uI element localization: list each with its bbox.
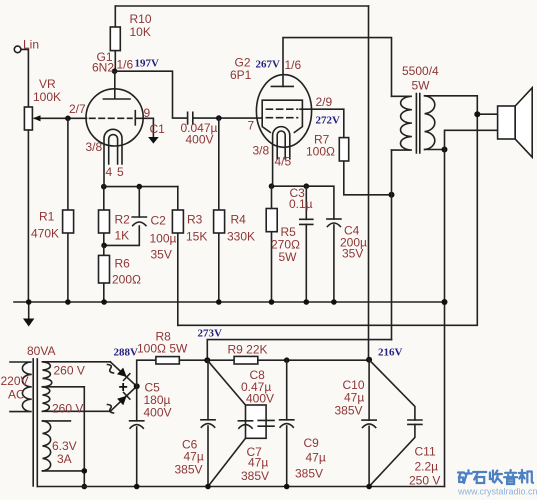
wire pin9 to ground: [135, 118, 153, 137]
svg-text:15K: 15K: [186, 230, 207, 244]
svg-text:R4: R4: [231, 213, 247, 227]
svg-text:R2: R2: [115, 213, 131, 227]
node C6 ground: [205, 484, 211, 490]
svg-text:2/9: 2/9: [316, 95, 333, 109]
svg-text:5500/4: 5500/4: [402, 64, 439, 78]
svg-text:R9 22K: R9 22K: [228, 343, 268, 357]
wire C1 to G2 grid: [193, 117, 262, 119]
svg-text:100K: 100K: [33, 90, 61, 104]
resistor R6: [99, 245, 110, 302]
output transformer secondary: [425, 96, 435, 150]
svg-text:AC: AC: [8, 388, 25, 402]
G1 cathode (outer U, pin 3/8 lead): [104, 129, 122, 186]
capacitor C8 plates: [258, 420, 274, 426]
svg-text:200Ω: 200Ω: [112, 273, 141, 287]
tube G1 6N2 envelope: [86, 89, 143, 146]
wire 6.3V bottom lead: [43, 470, 85, 472]
svg-text:Lin: Lin: [23, 38, 39, 52]
ground symbol main: [23, 302, 34, 327]
svg-text:385V: 385V: [295, 467, 323, 481]
G2 heater inner arc pins 4/5: [277, 131, 285, 159]
node C9 top: [284, 357, 290, 363]
capacitor C1: [188, 112, 193, 124]
wire 6.3V top stub: [43, 420, 71, 422]
wire NFB rail: [178, 114, 478, 325]
G2 plate: [271, 85, 293, 87]
node 216V: [366, 357, 372, 363]
svg-text:288V: 288V: [114, 347, 139, 359]
capacitor C10: [362, 360, 376, 487]
output transformer primary: [392, 96, 412, 150]
svg-text:220V: 220V: [1, 374, 29, 388]
wire input Lin to VR: [14, 46, 28, 107]
resistor R4: [214, 118, 225, 302]
AC squiggle lower: [108, 405, 114, 414]
svg-text:6N2: 6N2: [92, 61, 114, 75]
tube G2 6P1 envelope: [256, 75, 311, 148]
node 1/6 G1 plate: [112, 68, 118, 74]
potentiometer VR: [24, 107, 86, 302]
wire secondary bottom to speaker bottom: [445, 130, 498, 149]
node R6 ground: [101, 299, 107, 305]
G2 beam plates: [262, 100, 302, 132]
svg-text:3A: 3A: [57, 452, 72, 466]
node C5 ground: [134, 484, 140, 490]
node secondary bottom: [442, 147, 448, 153]
wire top B+ rail: [115, 5, 368, 7]
svg-text:385V: 385V: [241, 469, 269, 483]
svg-text:47µ: 47µ: [344, 391, 364, 405]
capacitor C11: [408, 420, 422, 424]
wire diagonal 273V to C8 box: [207, 360, 245, 405]
G2 screen grid (dashed): [266, 108, 297, 110]
G1 heater inner arc pins 4,5: [109, 135, 118, 164]
svg-text:R1: R1: [39, 210, 55, 224]
wire B+ 273V rail: [207, 340, 391, 361]
node C3 top: [304, 183, 310, 189]
svg-text:385V: 385V: [175, 463, 203, 477]
svg-text:2.2µ: 2.2µ: [415, 460, 439, 474]
wire + node up to R8 line: [137, 360, 369, 421]
node 6.3V / center tap: [82, 468, 88, 474]
svg-text:1/6: 1/6: [285, 58, 302, 72]
svg-text:C9: C9: [304, 436, 320, 450]
wire diagonal 216V to C11: [369, 360, 415, 420]
svg-text:C2: C2: [151, 214, 167, 228]
G1 grid (dashed): [90, 117, 133, 119]
svg-text:+: +: [119, 379, 128, 396]
svg-text:35V: 35V: [342, 247, 363, 261]
svg-text:3/8: 3/8: [86, 140, 103, 154]
wire G2 plate to output transformer: [283, 38, 392, 97]
node cathode/C2: [137, 184, 143, 190]
node C10 ground: [366, 484, 372, 490]
wire diagonal C8 box to ground rail: [208, 438, 246, 486]
wire primary bottom to B+ rail: [391, 150, 393, 340]
svg-text:260 V: 260 V: [54, 364, 85, 378]
ground rail bottom: [37, 486, 444, 488]
transformer 260V winding upper: [43, 362, 52, 387]
svg-text:1K: 1K: [115, 229, 130, 243]
svg-text:4: 4: [106, 165, 113, 179]
capacitor C5: [130, 421, 144, 487]
speaker: [498, 88, 533, 157]
svg-text:47µ: 47µ: [306, 451, 326, 465]
capacitor C2: [132, 187, 146, 226]
watermark logo 矿石收音机 (drawn strokes): [458, 470, 533, 484]
svg-text:273V: 273V: [198, 328, 223, 340]
svg-text:272V: 272V: [316, 115, 341, 127]
wire 197V from G1 plate to C1: [115, 71, 187, 118]
svg-text:47µ: 47µ: [248, 456, 268, 470]
node ground bus right end: [442, 299, 448, 305]
svg-text:10K: 10K: [130, 25, 151, 39]
node 273V R8/R9: [204, 357, 210, 363]
svg-text:C1: C1: [150, 122, 166, 136]
AC squiggle upper: [108, 365, 114, 374]
resistor R8: [156, 357, 179, 364]
node R5 ground: [269, 299, 275, 305]
diode D1: [110, 362, 136, 387]
node C9 ground: [284, 484, 290, 490]
wire secondary bottom to ground rails: [444, 150, 446, 487]
wire right B+ vertical to 216V node: [368, 6, 370, 360]
svg-text:400V: 400V: [186, 133, 214, 147]
node C4 ground: [331, 299, 337, 305]
resistor R5: [266, 186, 277, 302]
G2 cathode (outer U, lead to R5): [273, 127, 290, 187]
svg-text:6.3V: 6.3V: [52, 439, 77, 453]
svg-text:9: 9: [144, 106, 151, 120]
resistor R10: [110, 6, 120, 71]
svg-text:100Ω: 100Ω: [306, 145, 335, 159]
svg-text:267V: 267V: [256, 59, 281, 71]
capacitor C4: [327, 219, 341, 302]
wire secondary bottom: [425, 149, 445, 151]
wire G2 cathode node: [272, 186, 334, 219]
G2 control grid (dashed): [266, 117, 297, 119]
svg-text:260 V: 260 V: [52, 402, 83, 416]
svg-text:5W: 5W: [412, 79, 431, 93]
capacitor C6: [201, 420, 215, 487]
svg-text:216V: 216V: [378, 347, 403, 359]
svg-text:35V: 35V: [151, 248, 172, 262]
wire G2 screen to R7: [300, 109, 344, 137]
G1 plate: [103, 71, 130, 99]
node R7/primary junction: [389, 192, 395, 198]
ground bus: [14, 301, 445, 303]
node R5 top: [269, 183, 275, 189]
svg-text:C11: C11: [415, 445, 436, 459]
node R4 ground: [216, 299, 222, 305]
svg-text:www.crystalradio.cn: www.crystalradio.cn: [457, 487, 537, 497]
wire HV center tap: [43, 387, 85, 487]
wire secondary top to speaker: [425, 96, 498, 114]
svg-text:VR: VR: [39, 77, 56, 91]
wire C6 top lead: [207, 360, 209, 420]
svg-text:5W: 5W: [279, 250, 298, 264]
svg-text:100µ: 100µ: [150, 232, 177, 246]
svg-text:47µ: 47µ: [184, 450, 204, 464]
svg-text:400V: 400V: [144, 406, 172, 420]
G1 pin 9 shield bar: [134, 111, 136, 125]
transformer primary 220V winding: [10, 362, 32, 412]
wire R2 bottom to C2 bottom: [104, 226, 140, 245]
svg-text:197V: 197V: [135, 58, 160, 70]
node speaker top / NFB: [474, 111, 480, 117]
diode D2: [110, 386, 136, 411]
node R2 bottom: [101, 243, 107, 249]
node cathode/R2: [101, 184, 107, 190]
svg-text:7: 7: [248, 119, 255, 133]
resistor R7: [339, 138, 391, 195]
svg-text:6P1: 6P1: [230, 68, 252, 82]
wire 260V bottom lead to D2: [43, 410, 111, 412]
node C1/R4 junction: [216, 115, 222, 121]
wire diagonal C11 to ground rail: [369, 424, 415, 486]
node VR ground: [26, 299, 32, 305]
svg-text:400V: 400V: [246, 392, 274, 406]
svg-text:2/7: 2/7: [69, 102, 86, 116]
ground symbol pin9: [148, 137, 159, 144]
resistor R9: [234, 356, 258, 364]
wire G1 cathode node: [104, 186, 178, 188]
svg-text:1/6: 1/6: [117, 58, 134, 72]
svg-text:R10: R10: [130, 12, 152, 26]
node center tap ground: [82, 484, 88, 490]
transformer 260V winding lower: [43, 387, 50, 412]
svg-text:470K: 470K: [31, 227, 59, 241]
svg-text:250 V: 250 V: [409, 474, 440, 488]
output transformer core: [416, 94, 419, 153]
resistor R2: [99, 187, 110, 246]
capacitor C9: [280, 360, 294, 486]
node C3 ground: [304, 299, 310, 305]
wire 260V top lead to D1: [43, 361, 111, 363]
capacitor C3: [300, 186, 313, 302]
capacitor C7: [238, 421, 252, 428]
node G1 grid / R1: [65, 116, 71, 122]
svg-text:R6: R6: [115, 257, 131, 271]
svg-text:0.1µ: 0.1µ: [289, 197, 313, 211]
node R1 ground: [65, 299, 71, 305]
svg-text:80VA: 80VA: [27, 344, 55, 358]
svg-text:5: 5: [117, 165, 124, 179]
svg-text:R3: R3: [187, 213, 203, 227]
transformer 6.3V winding: [43, 421, 51, 471]
capacitor C8 box: [246, 405, 267, 438]
svg-text:100Ω 5W: 100Ω 5W: [137, 342, 188, 356]
node + rectifier output: [134, 383, 140, 389]
svg-text:4/5: 4/5: [275, 155, 292, 169]
power transformer core: [33, 359, 37, 487]
svg-text:385V: 385V: [335, 404, 363, 418]
resistor R3: [172, 187, 183, 326]
svg-text:330K: 330K: [227, 230, 255, 244]
resistor R1: [63, 118, 74, 302]
svg-text:3/8: 3/8: [253, 144, 270, 158]
